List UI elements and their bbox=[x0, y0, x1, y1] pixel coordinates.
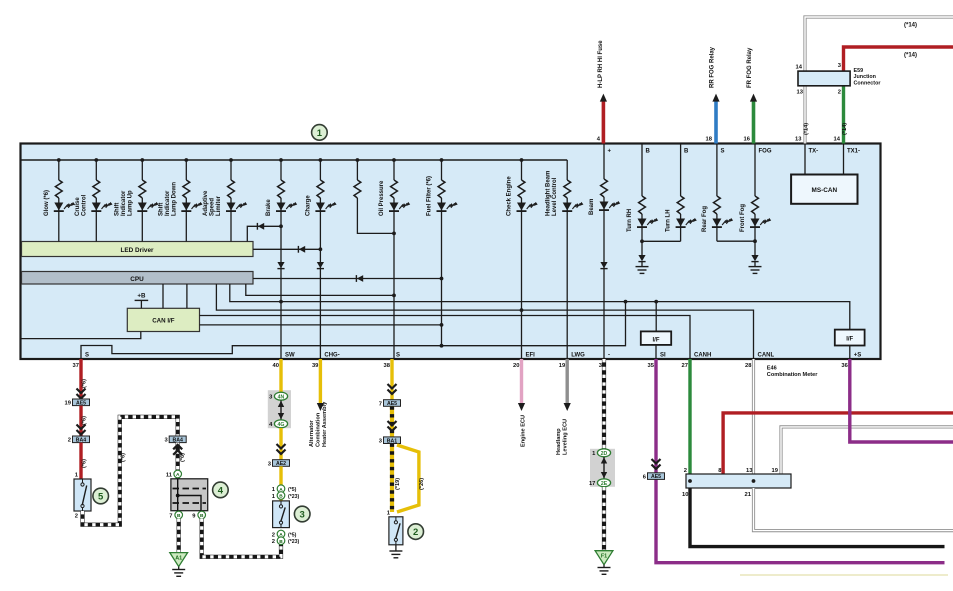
svg-text:+B: +B bbox=[137, 293, 146, 300]
svg-text:11: 11 bbox=[166, 473, 173, 479]
resistor Shift/Indicator/Lamp Down bbox=[183, 180, 190, 198]
svg-text:B: B bbox=[684, 148, 689, 154]
svg-text:BA1: BA1 bbox=[387, 438, 397, 444]
wire column Beam bbox=[603, 144, 605, 180]
wire CPU to CANL pin bbox=[216, 284, 753, 359]
svg-text:Speed: Speed bbox=[210, 198, 216, 216]
junction EFI col/CANL row bbox=[520, 308, 524, 312]
svg-text:37: 37 bbox=[73, 363, 79, 369]
wire column Adaptive/Speed/Limiter bbox=[230, 160, 232, 180]
diode Turn pair bbox=[638, 255, 645, 261]
junction Turn pair bbox=[640, 239, 644, 243]
wire black-white comp4 to A1 ground bbox=[177, 519, 181, 553]
wire column Rear Fog bbox=[716, 144, 718, 197]
svg-text:Indicator: Indicator bbox=[121, 190, 127, 216]
svg-text:Charge: Charge bbox=[305, 195, 311, 216]
svg-text:(*23): (*23) bbox=[288, 494, 300, 500]
svg-text:5: 5 bbox=[98, 491, 104, 502]
svg-text:1: 1 bbox=[317, 128, 323, 139]
wire yellow-black BA1 to comp2 bbox=[390, 444, 394, 513]
wire CPU row to Fuel column bbox=[253, 278, 442, 280]
chevrons S38 b bbox=[388, 421, 397, 431]
junction band right bbox=[752, 479, 756, 483]
junction Brake col row bbox=[279, 300, 283, 304]
wire black-white BA4 to comp4 bbox=[176, 443, 180, 479]
LED Fuel Filter bbox=[437, 203, 446, 211]
wire yellow-black AE5 to BA1 bbox=[390, 406, 394, 437]
svg-text:2D: 2D bbox=[601, 451, 608, 457]
wire SW yellow segment 1 bbox=[279, 359, 282, 392]
LED Check Engine bbox=[517, 203, 526, 211]
svg-text:Headlight Beam: Headlight Beam bbox=[546, 171, 552, 216]
svg-text:B: B bbox=[279, 494, 283, 500]
switch component 2 (oil pressure) bbox=[389, 517, 403, 545]
svg-text:(*19): (*19) bbox=[395, 478, 401, 490]
svg-text:AE2: AE2 bbox=[276, 461, 286, 467]
arrow between 2D and 2E bbox=[603, 457, 605, 479]
svg-text:4: 4 bbox=[218, 485, 224, 496]
wire TX- to MS-CAN bbox=[804, 144, 806, 175]
connector 7 AE5 bbox=[384, 400, 401, 407]
wire CAN I/F to CANH pin bbox=[200, 316, 691, 360]
svg-text:Connector: Connector bbox=[854, 80, 882, 86]
svg-text:2: 2 bbox=[413, 527, 418, 538]
svg-text:18: 18 bbox=[706, 137, 713, 143]
wire left edge to CAN I/F bottom bbox=[22, 332, 141, 339]
svg-text:S: S bbox=[721, 148, 725, 154]
svg-text:38: 38 bbox=[384, 363, 391, 369]
wire S37 red segment 1 bbox=[79, 359, 82, 399]
svg-text:Control: Control bbox=[81, 194, 87, 216]
wire column Headlight Beam Level Control bbox=[566, 160, 568, 180]
wire column Charge bbox=[319, 160, 321, 180]
wire SW yellow segment 2 bbox=[279, 428, 282, 460]
svg-text:20: 20 bbox=[513, 363, 519, 369]
pin B1 comp4 bbox=[175, 511, 183, 519]
wire CPU row to Oil column bbox=[246, 284, 394, 295]
MS-CAN block bbox=[791, 175, 857, 204]
svg-text:19: 19 bbox=[772, 468, 779, 474]
svg-text:4G: 4G bbox=[278, 422, 285, 428]
svg-text:Heater Assembly: Heater Assembly bbox=[322, 401, 328, 447]
ground Fog pair bbox=[749, 266, 762, 268]
svg-text:36: 36 bbox=[841, 363, 848, 369]
I/F block left bbox=[641, 331, 671, 345]
svg-text:17: 17 bbox=[589, 481, 595, 487]
wire column Glow (*6) bbox=[58, 160, 60, 180]
wire column Oil Pressure bbox=[393, 160, 395, 180]
svg-text:S: S bbox=[396, 353, 400, 359]
svg-text:(*5): (*5) bbox=[288, 487, 297, 493]
svg-text:(*14): (*14) bbox=[904, 23, 917, 29]
wire CHG- yellow bbox=[319, 359, 322, 404]
svg-text:AE5: AE5 bbox=[387, 401, 397, 407]
chevrons up BA4 bbox=[173, 445, 182, 455]
svg-text:Junction: Junction bbox=[854, 74, 876, 80]
svg-text:AE5: AE5 bbox=[76, 400, 86, 406]
pin 1B comp3 bbox=[277, 492, 285, 500]
connector 3 BA4 bbox=[169, 436, 186, 443]
LED Turn RH bbox=[638, 219, 647, 227]
resistor Charge bbox=[317, 180, 324, 198]
svg-text:28: 28 bbox=[745, 363, 752, 369]
wire LWG gray bbox=[566, 359, 569, 404]
junction Brake/diode row bbox=[279, 224, 283, 228]
svg-text:Limiter: Limiter bbox=[216, 195, 222, 216]
svg-text:Turn LH: Turn LH bbox=[666, 209, 672, 232]
svg-text:(*26): (*26) bbox=[419, 478, 425, 490]
resistor Shift/Indicator/Lamp Up bbox=[139, 180, 146, 198]
junction Oil column/pull-up bbox=[392, 232, 396, 236]
svg-text:Lamp Down: Lamp Down bbox=[171, 182, 177, 216]
svg-text:13: 13 bbox=[746, 468, 753, 474]
wire S37 routing riser bbox=[81, 302, 626, 359]
svg-text:MS-CAN: MS-CAN bbox=[812, 187, 838, 194]
LED Front Fog bbox=[751, 219, 760, 227]
svg-text:Lamp Up: Lamp Up bbox=[127, 190, 133, 216]
LED Beam bbox=[600, 202, 609, 210]
wire yellow loop (*26) bbox=[397, 445, 419, 512]
junction fuel riser bottom bbox=[440, 344, 444, 348]
arrow CHG- bbox=[317, 403, 324, 411]
svg-text:B: B bbox=[200, 513, 204, 519]
svg-text:E46: E46 bbox=[767, 366, 777, 372]
svg-text:(*6): (*6) bbox=[82, 416, 88, 425]
svg-text:14: 14 bbox=[796, 65, 803, 71]
connector 3 BA1 bbox=[384, 437, 401, 444]
wire top supply bus bbox=[22, 159, 568, 161]
LED Oil Pressure bbox=[390, 203, 399, 211]
wire column Turn RH bbox=[641, 144, 643, 197]
svg-text:2: 2 bbox=[68, 438, 71, 444]
pin 2A comp3 bbox=[277, 530, 285, 538]
pin 1A comp3 bbox=[277, 485, 285, 493]
wire column Front Fog bbox=[754, 144, 756, 197]
svg-text:(*6): (*6) bbox=[120, 453, 126, 462]
svg-text:3: 3 bbox=[300, 509, 305, 520]
svg-text:(*14): (*14) bbox=[904, 53, 917, 59]
chevrons S38 a bbox=[388, 384, 397, 394]
diode Beam column bbox=[600, 262, 607, 268]
diode CPU row bbox=[357, 275, 363, 282]
connector 3 AE2 bbox=[273, 460, 290, 467]
svg-text:CHG-: CHG- bbox=[324, 353, 339, 359]
svg-text:40: 40 bbox=[273, 363, 279, 369]
ground bars F1 bbox=[598, 567, 611, 569]
LED Glow (*6) bbox=[54, 203, 63, 211]
svg-text:+S: +S bbox=[854, 353, 862, 359]
wire CPU to CAN I/F 1 bbox=[162, 284, 164, 308]
svg-text:Shift: Shift bbox=[158, 203, 164, 216]
svg-text:Alternator: Alternator bbox=[309, 419, 315, 447]
svg-text:Fuel Filter (*6): Fuel Filter (*6) bbox=[427, 176, 433, 216]
wire LED driver to Charge column bbox=[253, 248, 320, 250]
wire column Fuel Filter bbox=[441, 160, 443, 180]
arrow between 4N and 4G bbox=[280, 401, 282, 420]
resistor Turn LH bbox=[677, 196, 684, 214]
wire column Brake bbox=[280, 160, 282, 180]
resistor Headlight Beam bbox=[564, 180, 571, 198]
wire TX1- to MS-CAN bbox=[843, 144, 845, 175]
svg-text:Shift: Shift bbox=[114, 203, 120, 216]
svg-text:Leveling ECU: Leveling ECU bbox=[563, 419, 569, 455]
svg-text:TX1-: TX1- bbox=[847, 148, 860, 154]
resistor Brake bbox=[278, 180, 285, 198]
wire black-white comp4 to comp3 bbox=[202, 519, 281, 557]
resistor Oil Pressure bbox=[391, 180, 398, 198]
svg-text:Oil Pressure: Oil Pressure bbox=[379, 180, 385, 216]
resistor Check Engine bbox=[518, 180, 525, 198]
wire shielded from right to pin 19 bbox=[781, 427, 953, 474]
LED Driver block bbox=[22, 242, 254, 257]
resistor Cruise/Control bbox=[93, 180, 100, 198]
resistor Glow (*6) bbox=[55, 180, 62, 198]
wire Turn join bbox=[642, 240, 681, 242]
wire SI purple bbox=[656, 359, 945, 563]
svg-text:E59: E59 bbox=[854, 68, 864, 74]
junction band left bbox=[688, 479, 692, 483]
wire RR FOG Relay (blue) bbox=[714, 100, 718, 144]
svg-text:+: + bbox=[608, 148, 612, 154]
wire red from right to pin 8 bbox=[723, 413, 953, 474]
svg-text:(*14): (*14) bbox=[804, 123, 810, 135]
connector 1 2D bbox=[597, 449, 610, 457]
svg-text:2: 2 bbox=[75, 514, 78, 520]
chevrons SI bbox=[652, 459, 661, 469]
svg-text:10: 10 bbox=[682, 492, 688, 498]
svg-text:(*14): (*14) bbox=[842, 123, 848, 135]
svg-text:Glow (*6): Glow (*6) bbox=[44, 190, 50, 216]
wire column Shift/Indicator/Lamp Down bbox=[185, 160, 187, 180]
LED Cruise/Control bbox=[92, 203, 101, 211]
svg-text:RR FOG Relay: RR FOG Relay bbox=[710, 46, 716, 88]
junction Fuel column/CPU row bbox=[440, 277, 444, 281]
diode Charge column bbox=[317, 262, 324, 268]
svg-text:2E: 2E bbox=[601, 481, 608, 487]
svg-text:Level Control: Level Control bbox=[552, 177, 558, 216]
arrow RR FOG Relay bbox=[712, 94, 719, 102]
connector 2 BA4 bbox=[73, 436, 90, 443]
wire green E59 pin2 to TX1- bbox=[842, 86, 845, 144]
wire S37 red segment 2 bbox=[79, 406, 82, 436]
svg-text:Brake: Brake bbox=[266, 199, 272, 216]
wire column Cruise/Control bbox=[95, 160, 97, 180]
wire black-white pin3 lower bbox=[602, 487, 606, 551]
pin 2B comp3 bbox=[277, 537, 285, 545]
svg-text:EFI: EFI bbox=[526, 353, 536, 359]
resistor Rear Fog bbox=[714, 196, 721, 214]
LED Brake bbox=[277, 203, 286, 211]
chevrons S37 a bbox=[77, 389, 86, 399]
LED Rear Fog bbox=[712, 219, 721, 227]
ground comp2 bbox=[389, 550, 402, 552]
svg-text:(*23): (*23) bbox=[288, 539, 300, 545]
wire CAN I/F to fuel riser bbox=[200, 324, 442, 326]
connector 3 4N bbox=[274, 392, 287, 400]
chevrons S37 b bbox=[77, 425, 86, 435]
wire to I/F left box bbox=[655, 302, 657, 332]
svg-text:SI: SI bbox=[660, 353, 666, 359]
component number 5 bbox=[93, 488, 109, 504]
svg-text:2: 2 bbox=[684, 468, 687, 474]
diode to Brake bbox=[258, 223, 264, 230]
junction Oil column/CPU row bbox=[392, 294, 396, 298]
wire +S purple bbox=[850, 359, 953, 442]
svg-text:F1: F1 bbox=[601, 554, 607, 560]
svg-text:CANH: CANH bbox=[694, 353, 711, 359]
ground triangle A1 bbox=[170, 553, 188, 567]
arrow EFI bbox=[518, 403, 525, 411]
svg-text:19: 19 bbox=[65, 401, 72, 407]
LED Shift/Indicator/Lamp Down bbox=[182, 203, 191, 211]
arrow FR FOG Relay bbox=[750, 94, 757, 102]
svg-text:CANL: CANL bbox=[758, 353, 775, 359]
wire red to E59 pin 3 bbox=[844, 47, 953, 71]
svg-text:Cruise: Cruise bbox=[75, 197, 81, 216]
svg-text:S: S bbox=[85, 353, 89, 359]
wire column Check Engine bbox=[521, 160, 523, 180]
svg-text:SW: SW bbox=[285, 353, 295, 359]
junction Fog pair bbox=[753, 239, 757, 243]
svg-text:BA4: BA4 bbox=[173, 437, 183, 443]
wire CANL shielded bbox=[752, 359, 755, 474]
component number 1 (combination meter) bbox=[312, 125, 328, 141]
gray highlight 2D/2E bbox=[590, 449, 615, 487]
chevrons SW bbox=[277, 444, 286, 454]
wire EFI pink bbox=[520, 359, 523, 404]
wire S38 yellow segment 1 bbox=[390, 359, 393, 400]
svg-text:13: 13 bbox=[795, 137, 802, 143]
wire SW yellow segment 3 bbox=[279, 466, 282, 501]
connector 4 4G bbox=[274, 420, 287, 428]
E59 Junction Connector box bbox=[798, 71, 850, 86]
CAN I/F block bbox=[127, 308, 199, 331]
svg-text:H-LP RH HI Fuse: H-LP RH HI Fuse bbox=[598, 40, 604, 88]
wire shielded to E59 pin 14 bbox=[805, 17, 953, 71]
ground bars A1 bbox=[172, 569, 185, 571]
wire S37 red segment 3 bbox=[79, 443, 82, 479]
junction riser/row bbox=[624, 300, 628, 304]
gray highlight 4N/4G bbox=[268, 390, 291, 428]
svg-text:2: 2 bbox=[838, 90, 841, 96]
connector 19 AE5 bbox=[73, 399, 90, 406]
diode to Charge bbox=[299, 246, 305, 253]
svg-text:19: 19 bbox=[559, 363, 566, 369]
I/F block right bbox=[835, 330, 865, 346]
arrow LWG bbox=[564, 403, 571, 411]
LED Charge bbox=[316, 203, 325, 211]
connector 17 2E bbox=[597, 479, 610, 487]
wire Oil pull-up column bbox=[356, 160, 358, 180]
resistor Fuel Filter bbox=[438, 180, 445, 198]
wire FR FOG Relay (green) bbox=[752, 100, 756, 144]
wire Fog join bbox=[717, 240, 755, 242]
wire black-white pin3 upper bbox=[602, 359, 606, 449]
svg-text:35: 35 bbox=[648, 363, 655, 369]
wire shielded pin21 bbox=[754, 488, 953, 531]
svg-text:(*5): (*5) bbox=[288, 532, 297, 538]
resistor Beam bbox=[601, 179, 608, 197]
resistor Oil pull-up bbox=[354, 180, 361, 198]
LED Adaptive/Speed/Limiter bbox=[227, 203, 236, 211]
wire CPU row to I/F boxes bbox=[230, 284, 850, 330]
svg-text:BA4: BA4 bbox=[76, 437, 86, 443]
svg-text:LWG: LWG bbox=[571, 353, 585, 359]
LED Headlight Beam bbox=[563, 203, 572, 211]
svg-text:FOG: FOG bbox=[759, 148, 772, 154]
junction Charge/diode row bbox=[319, 247, 323, 251]
ground triangle F1 bbox=[595, 551, 613, 565]
component number 4 bbox=[213, 482, 229, 498]
svg-text:I/F: I/F bbox=[846, 336, 853, 342]
svg-text:A1: A1 bbox=[175, 556, 182, 562]
wire black-white comp5 to 3 BA4 bbox=[83, 417, 178, 525]
svg-text:7: 7 bbox=[379, 401, 382, 407]
svg-text:Rear Fog: Rear Fog bbox=[702, 206, 708, 232]
resistor Front Fog bbox=[752, 196, 759, 214]
diode Fog pair bbox=[751, 255, 758, 261]
svg-text:Beam: Beam bbox=[589, 199, 595, 215]
svg-text:CPU: CPU bbox=[130, 276, 144, 283]
svg-text:(*6): (*6) bbox=[180, 453, 186, 462]
svg-text:TX-: TX- bbox=[809, 148, 819, 154]
svg-text:4N: 4N bbox=[278, 394, 285, 400]
wire CPU to CAN I/F 2 bbox=[186, 284, 188, 308]
resistor Adaptive/Speed/Limiter bbox=[228, 180, 235, 198]
diode Brake column bbox=[277, 262, 284, 268]
wire column Shift/Indicator/Lamp Up bbox=[141, 160, 143, 180]
switch component 3 (brake fluid level) bbox=[273, 501, 290, 528]
svg-text:39: 39 bbox=[312, 363, 319, 369]
svg-text:27: 27 bbox=[682, 363, 688, 369]
connector 6 AE5 bbox=[648, 473, 665, 480]
component number 3 bbox=[294, 506, 310, 522]
svg-text:Indicator: Indicator bbox=[165, 190, 171, 216]
svg-text:A: A bbox=[176, 472, 180, 478]
svg-text:Check Engine: Check Engine bbox=[507, 176, 513, 216]
junction I/F branch bbox=[654, 300, 658, 304]
pin A comp4 bbox=[174, 470, 182, 478]
LED Shift/Indicator/Lamp Up bbox=[138, 203, 147, 211]
svg-text:Engine ECU: Engine ECU bbox=[520, 415, 526, 447]
svg-text:14: 14 bbox=[834, 137, 841, 143]
combination meter assembly box outline bbox=[21, 144, 881, 360]
wire CANH green bbox=[688, 359, 691, 474]
svg-text:-: - bbox=[608, 353, 610, 359]
CPU block bbox=[22, 272, 254, 285]
svg-text:B: B bbox=[646, 148, 651, 154]
svg-text:(*6): (*6) bbox=[82, 459, 88, 468]
svg-text:13: 13 bbox=[797, 90, 804, 96]
resistor Turn RH bbox=[639, 196, 646, 214]
svg-text:Combination: Combination bbox=[316, 412, 322, 447]
arrow H-LP RH HI Fuse bbox=[600, 94, 607, 102]
wire black pin10 bbox=[690, 488, 945, 547]
component 4 block bbox=[171, 479, 208, 511]
svg-text:FR FOG Relay: FR FOG Relay bbox=[747, 47, 753, 88]
svg-text:2: 2 bbox=[272, 539, 275, 545]
svg-text:21: 21 bbox=[745, 492, 752, 498]
ground Turn pair bbox=[636, 266, 649, 268]
wire shielded E59 pin13 to TX- bbox=[803, 86, 806, 144]
svg-text:16: 16 bbox=[744, 137, 751, 143]
svg-text:AE5: AE5 bbox=[651, 474, 661, 480]
pin B2 comp4 bbox=[198, 511, 206, 519]
wire I/F right to +S pin bbox=[849, 346, 851, 360]
svg-text:(*6): (*6) bbox=[82, 379, 88, 388]
wire LED driver to Brake column bbox=[247, 226, 281, 241]
component number 2 bbox=[408, 524, 424, 540]
